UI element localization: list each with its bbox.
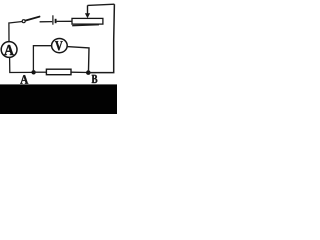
rheostat (slide resistor) bbox=[72, 18, 103, 24]
wire: resistor to node B bbox=[71, 71, 88, 73]
wire: top-left corner to switch pivot bbox=[9, 22, 23, 42]
wire: voltmeter right lead down to node B bbox=[67, 47, 89, 71]
voltmeter V bbox=[52, 39, 68, 53]
battery: long plate (+) bbox=[52, 15, 54, 24]
wire: node A to resistor bbox=[34, 71, 47, 73]
solid black band across bottom of image bbox=[0, 84, 117, 114]
label A bbox=[20, 75, 28, 83]
node B (junction dot) bbox=[86, 70, 91, 75]
wire: node B to bottom-right corner and up right side bbox=[88, 4, 114, 72]
ammeter A bbox=[1, 42, 17, 58]
wire: voltmeter left lead down to node A bbox=[33, 46, 51, 71]
wire: top-right corner to rheostat slider arrow bbox=[88, 4, 115, 5]
wire: switch contact stub to battery bbox=[40, 21, 53, 23]
wire: battery to rheostat bbox=[57, 20, 72, 22]
resistor R (between A and B) bbox=[46, 69, 71, 75]
node A (junction dot) bbox=[31, 70, 35, 74]
switch S (open): pivot circle bbox=[22, 20, 25, 23]
rheostat slider arrow bbox=[85, 5, 90, 18]
battery: short thick plate (-) bbox=[55, 19, 57, 23]
switch S (open): blade bbox=[25, 17, 39, 21]
label B bbox=[92, 75, 98, 83]
wire: ammeter down to bottom-left corner and right to node A bbox=[10, 58, 34, 73]
